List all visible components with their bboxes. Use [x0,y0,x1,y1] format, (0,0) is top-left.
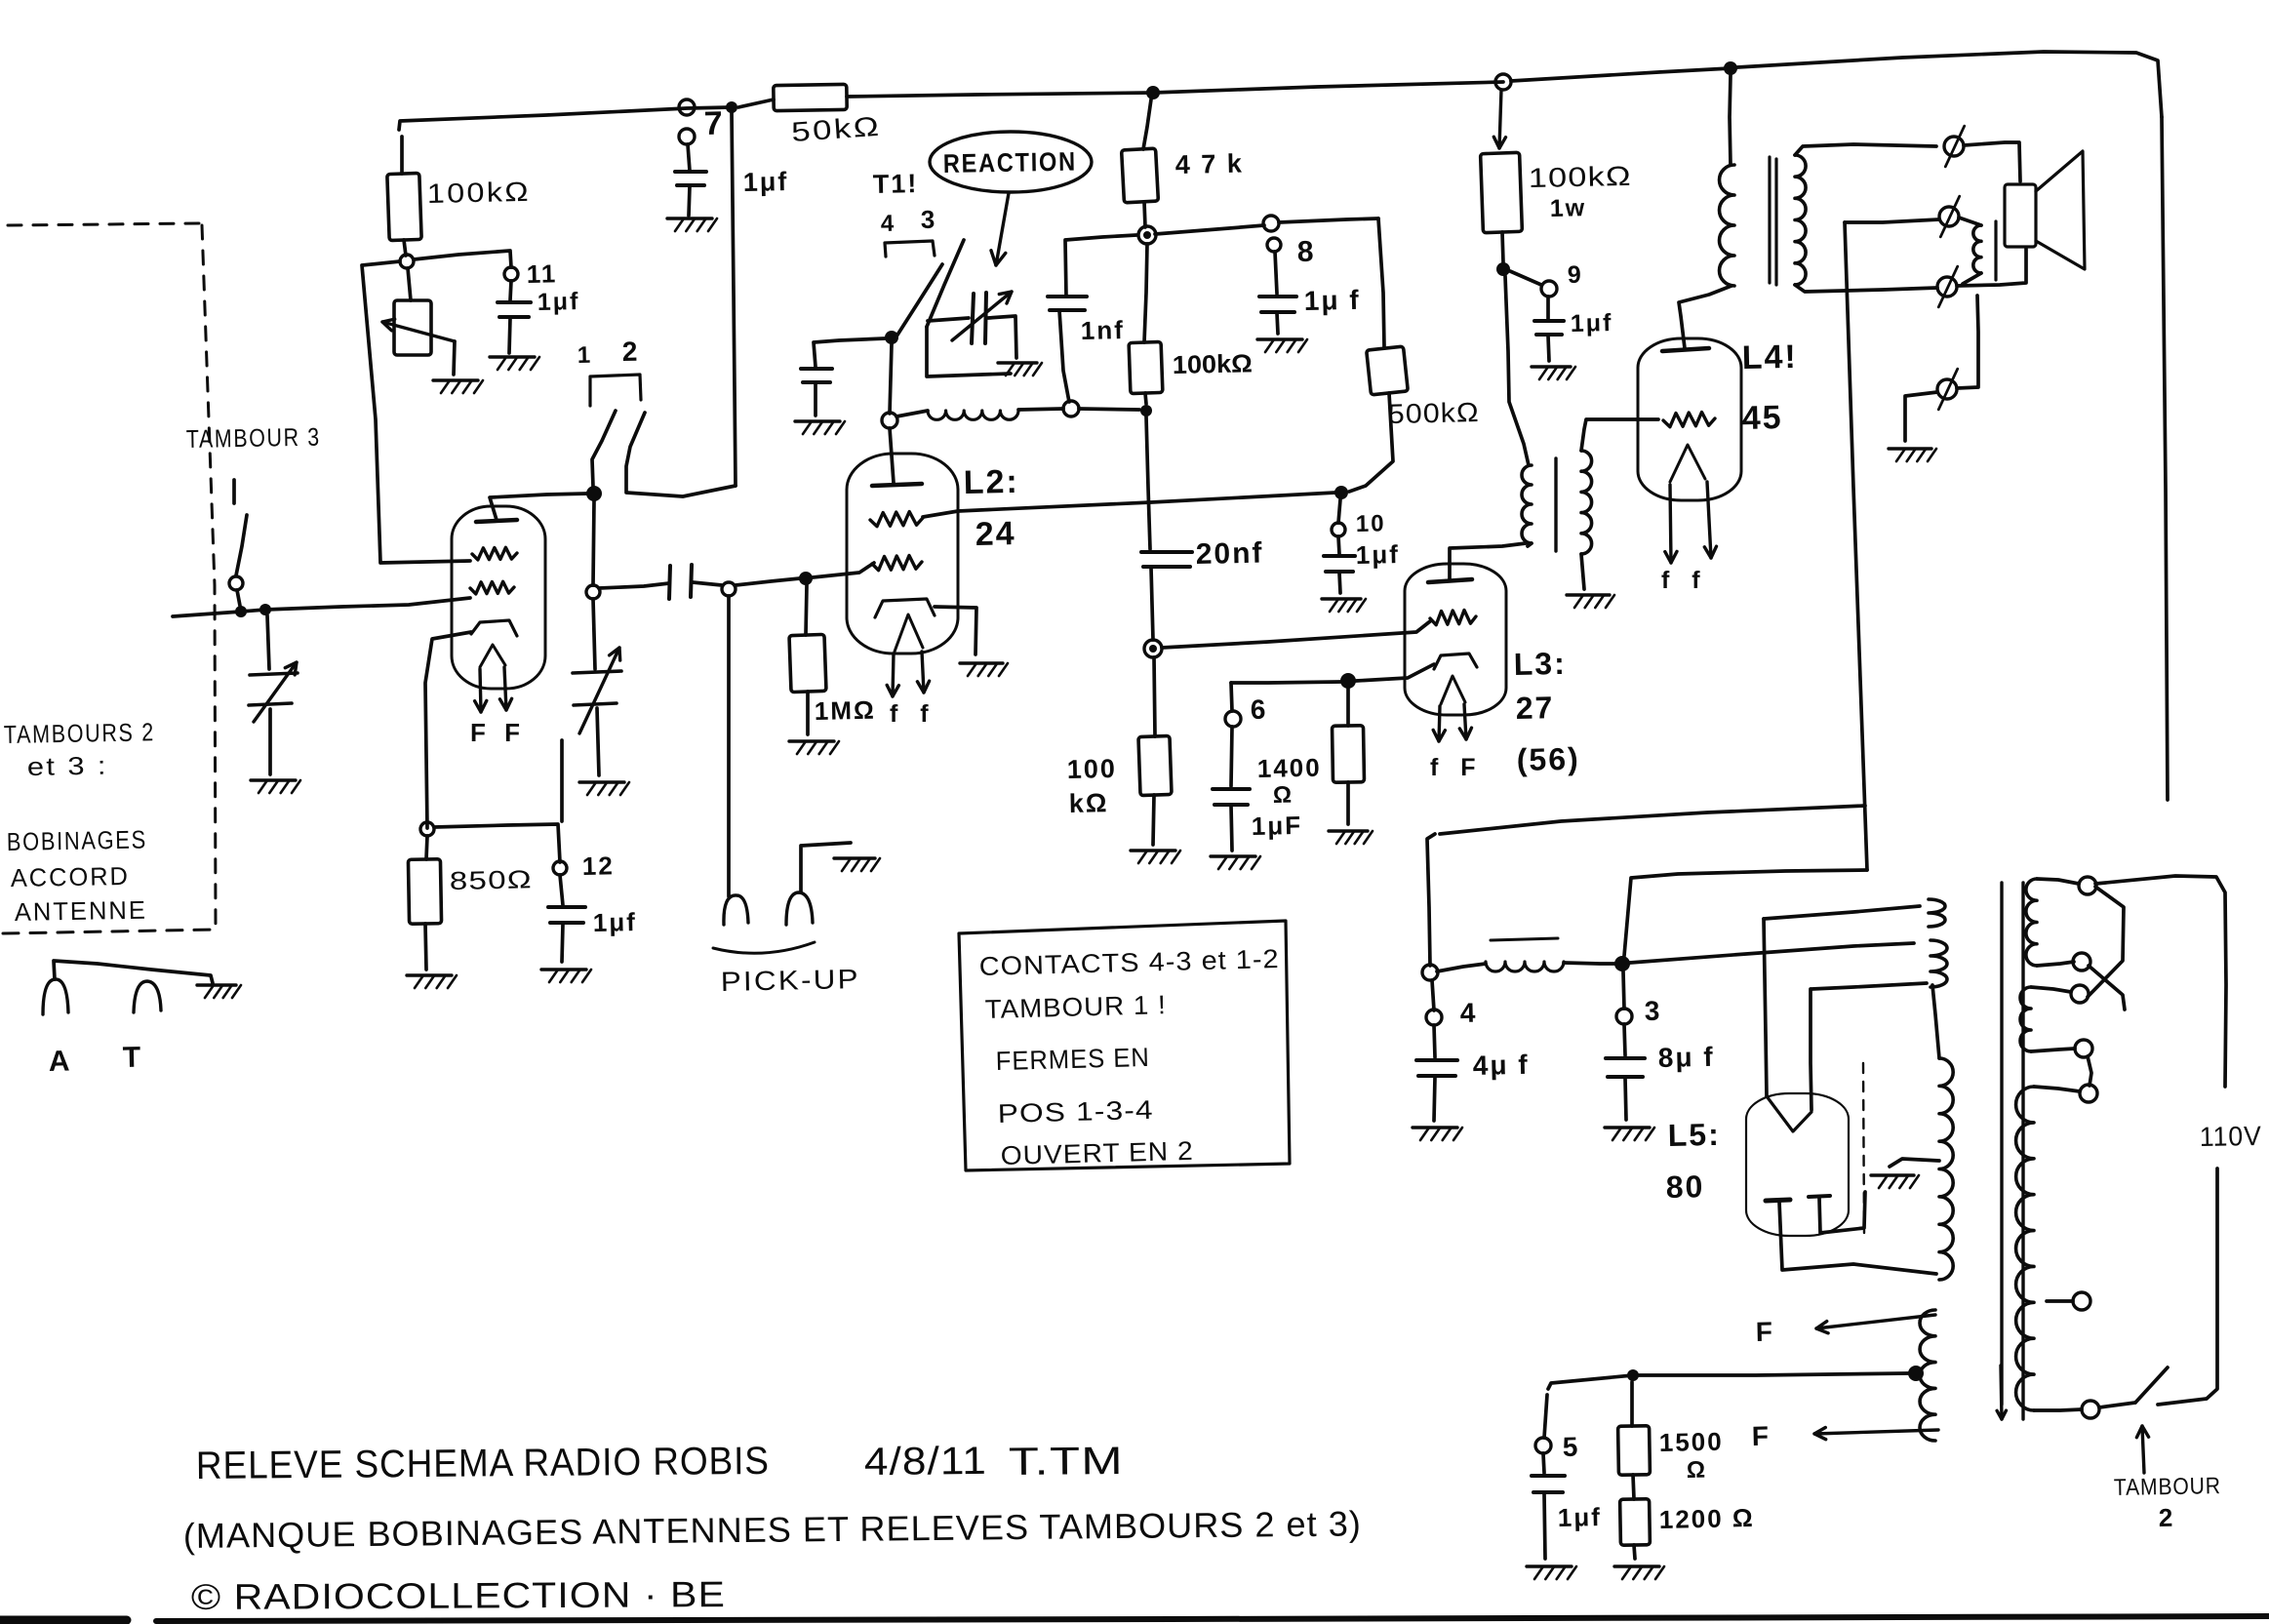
ground under node-8 cap [1257,339,1307,352]
ellipse around REACTION label [930,132,1092,192]
note text line 3 [995,1043,1150,1076]
wire terminal A to right corner [2095,876,2226,1087]
wire node 6 down to cap [1231,727,1232,786]
note text line 2 [984,990,1167,1024]
pickup arc [713,942,815,953]
tube L5 filament vee [1767,1096,1811,1131]
tube L2 filament vee [895,614,923,652]
label 1uF node 6 [1251,811,1302,841]
wire 100k to coil junction [1145,393,1146,404]
wire right edge vertical [2162,117,2168,800]
label TAMBOUR 3 [186,422,322,454]
wire F upper arrow [1816,1315,1935,1333]
wire L2 anode line to node 10 [923,493,1335,517]
label node 11 [526,258,557,289]
wire winding A top to terminal [2037,879,2079,884]
wire node12 cap to ground [562,924,563,962]
wire C bottom to mains switch [2099,1403,2135,1407]
tube L4 envelope [1638,338,1741,500]
speaker horn [2036,151,2085,269]
label TAMBOUR (2) [2114,1473,2221,1501]
wire junction to L2 grid [813,563,874,577]
label PICK-UP [720,964,860,997]
wire 1M to ground [806,692,810,734]
ground right of L2 [960,663,1008,676]
speaker terminal 3 circle [1937,277,1957,297]
svg-text:20nf: 20nf [1195,537,1263,571]
variable capacitor reaction right plate [985,293,986,343]
wire long drop to power section [1845,222,1867,870]
svg-text:8μ f: 8μ f [1657,1042,1714,1073]
label et 3 : [27,751,109,781]
wire coil to junction [1018,409,1063,410]
svg-text:ACCORD: ACCORD [11,861,131,892]
wire L5 right anode lead [1819,1192,1865,1233]
capacitor 1uF at node 5 [1532,1476,1565,1492]
tube L1 grid1 zigzag [472,547,517,560]
ground under node-5 cap [1527,1566,1576,1579]
terminal circle winding C mid-tap [2073,1292,2090,1310]
node 6 open circle [1225,711,1241,727]
ground under node-6 cap [1211,856,1260,869]
subtitle line [183,1503,1362,1556]
svg-text:11: 11 [526,258,557,289]
svg-text:50kΩ: 50kΩ [790,111,882,147]
wire T1 node left to cathode cap [814,338,885,367]
core arrow bottom [1997,1366,2006,1419]
svg-text:4: 4 [881,211,896,237]
svg-text:1μF: 1μF [1251,811,1302,841]
wire 100k1W down to junction [1502,232,1503,262]
svg-text:Ω: Ω [1687,1457,1708,1484]
wire terminal4 to ground drop [1905,392,1937,441]
junction dot above 1500 [1627,1369,1639,1381]
dashed line left of HV winding [1863,1063,1864,1233]
tube L1 plate bar [476,520,517,522]
slash through terminal 2 [1940,196,1959,237]
HV center tap ground lead [1890,1159,1939,1167]
wire junction down to circle [593,500,594,585]
ground under 4uF [1413,1128,1462,1140]
capacitor 1uF at node 6 [1213,789,1250,805]
ground under reaction cap [998,363,1042,376]
output transformer core lines [1770,157,1776,285]
wire 500k down to node 10 [1349,393,1393,492]
tube L2 grid1 zigzag [870,512,923,527]
svg-text:T: T [122,1042,142,1074]
node circle after coil [1063,401,1079,416]
tube L1 filament vee [480,645,505,667]
label f f under L2 [890,700,936,728]
wire bus to 47k [1143,99,1151,149]
wire secondary top to L4 grid [1581,419,1658,451]
tube L1 cathode bracket [471,620,517,636]
wire 47k to junction [1144,202,1145,227]
node 5 open circle [1535,1438,1551,1453]
tube L1 grid2 zigzag [470,581,514,594]
svg-text:4 7 k: 4 7 k [1174,149,1244,179]
junction dot bus top [1146,86,1160,99]
svg-text:1500: 1500 [1658,1427,1723,1457]
switch blade contact4 [895,264,942,339]
tube L2 envelope [847,454,958,654]
svg-text:110V: 110V [2200,1121,2263,1152]
svg-text:7: 7 [703,105,725,142]
svg-text:5: 5 [1562,1432,1579,1462]
wire reaction node into L2 top [890,428,894,483]
wire node8 to cap [1275,252,1277,294]
tube L4 filament vee [1670,445,1705,482]
junction dot at L1 plate switch [586,486,602,501]
svg-text:RELEVE SCHEMA RADIO ROBIS: RELEVE SCHEMA RADIO ROBIS [196,1440,770,1487]
wire node4 to cap [1434,1025,1435,1057]
ground under rheostat wiper [433,380,483,393]
title monogram [1009,1440,1124,1484]
label 1uF node 8 [1303,285,1360,316]
svg-text:10: 10 [1356,510,1386,537]
label F F under L1 [470,718,526,747]
variable capacitor antenna arrow [254,662,297,722]
wire circle to main line [237,590,240,606]
junction dot node 10 [1334,486,1348,499]
tube L4 filament arrows [1665,482,1717,563]
terminal circle winding A bottom [2073,953,2090,970]
variable capacitor reaction arrow [952,292,1012,340]
tube L4 plate bar [1662,348,1709,351]
capacitor 1uF at node 9 [1534,321,1564,335]
svg-text:TAMBOUR 3: TAMBOUR 3 [186,422,322,454]
wire 1500 to 1200 [1633,1475,1634,1499]
svg-text:2: 2 [2158,1503,2174,1532]
ground under 1400 resistor [1329,831,1373,844]
wire corner down to choke node [1427,834,1435,966]
label 20nF [1195,537,1263,571]
wire corner down to node 5 [1544,1395,1547,1438]
label ANTENNE [15,895,148,927]
mains winding C (110V primary) [2016,1087,2034,1410]
power transformer core right [2021,883,2024,1419]
svg-text:PICK-UP: PICK-UP [720,964,860,997]
wire C mid tap [2047,1299,2073,1303]
crossing wire B-top to A [2088,887,2124,997]
label node 7 [703,105,725,142]
label 100kohm 1W [1528,161,1632,193]
label node 3 [1644,996,1661,1026]
wire A to arc over T [54,961,213,983]
svg-text:1μf: 1μf [592,907,637,937]
wire 8uF to ground [1625,1078,1626,1120]
label contacts 1 2 [577,337,640,369]
svg-text:4: 4 [1459,998,1477,1028]
ground under speaker terminal 4 [1889,449,1936,461]
wire node to 100k-1W with arrow [1493,90,1505,148]
arrow TAMBOUR 2 [2136,1426,2148,1473]
wire 100k lower to ground [1153,795,1154,845]
label F lower [1751,1421,1771,1451]
svg-text:1μ f: 1μ f [1303,285,1360,316]
junction dot at top of switch riser [726,101,737,113]
label f f under L4 [1661,567,1708,594]
wire winding B bottom lead [2031,1049,2075,1051]
label node 8 [1296,236,1315,268]
svg-text:f F: f F [1430,754,1484,781]
svg-text:T.TM: T.TM [1009,1440,1124,1484]
wire OT secondary bottom to terminal 3 [1795,285,1937,292]
wire terminal1 to speaker corner [1964,142,2020,181]
label 110V [2200,1121,2263,1152]
wire winding B top lead [2031,987,2071,992]
svg-text:L5:: L5: [1667,1117,1721,1153]
wire pickup left prong drop [727,596,731,896]
coupling capacitor right plate [691,565,692,597]
switch 1-2 bracket [590,375,641,406]
wire F lower arrow [1814,1428,1938,1440]
svg-text:1: 1 [577,342,593,369]
ground under antenna tuning cap [251,780,300,793]
wire right filament vertical [1811,989,1811,1110]
svg-text:L2:: L2: [963,463,1019,501]
terminal circle winding A top [2079,877,2096,894]
label 45 [1741,399,1783,437]
wire node6 cap to ground [1231,806,1232,851]
ground under 8uF [1605,1128,1654,1140]
wire node9 to cap [1546,297,1550,319]
rectifier filament winding upper [1929,899,1945,927]
pickup left prong [724,895,748,925]
ground under node-12 capacitor [541,970,591,982]
ground under node-10 cap [1322,599,1366,612]
node 11 open circle [504,267,518,281]
wire junction to node 3 [1623,971,1624,1009]
wire node to left corner and down to L1 grid1 [362,261,470,563]
wire down to node 4 [1432,980,1434,1010]
wire junction to node 8 [1155,225,1264,234]
label 1uF at node 11 [537,288,580,316]
label 1200 ohm [1658,1503,1755,1534]
label 500kohm [1387,397,1480,429]
junction dot B+ top right [1724,61,1737,75]
wire junction right to rectifier winding [1630,943,1914,963]
label 1uF right of riser [742,167,788,197]
node circle on pickup line [586,585,600,599]
filament winding L4 heater [1920,1310,1935,1441]
variable capacitor antenna plate bottom [249,703,292,705]
label L3: [1513,646,1567,682]
tube L3 grid zigzag [1430,611,1476,625]
svg-text:1400: 1400 [1256,753,1321,783]
ground under 850 ohm [407,975,457,988]
wire HV top to rect winding [1932,985,1939,1058]
svg-text:Ω: Ω [1273,782,1294,809]
label L5: [1667,1117,1721,1153]
svg-text:A: A [48,1046,71,1078]
tube L3 filament vee [1441,676,1465,704]
resistor 100k (bus) body [1129,341,1163,393]
wire bus junction down to 20nF [1146,416,1150,549]
node circle reaction tap [882,413,897,428]
label REACTION [943,147,1078,178]
tube L3 filament arrows [1433,704,1471,741]
svg-text:6: 6 [1250,694,1267,725]
wire rect-winding upper lead [1764,906,1920,919]
wire node8 cap to ground [1277,313,1278,334]
rheostat body (potentiometer) [394,300,431,355]
switch blade contact1 [592,411,616,487]
svg-text:f f: f f [890,700,936,728]
svg-text:FERMES EN: FERMES EN [995,1043,1150,1076]
variable capacitor 2 arrow [579,648,620,733]
ground next to T [197,985,241,998]
label f F under L3 [1430,754,1484,781]
wire circle to coupling cap [599,583,669,588]
power transformer HV winding [1939,1058,1953,1280]
label 24 [975,515,1016,553]
ground under lower 100k [1131,851,1180,863]
terminal circle winding B top [2071,985,2089,1003]
slash through terminal 3 [1938,266,1957,307]
svg-text:et 3 :: et 3 : [27,751,109,781]
mains switch blade [2135,1367,2168,1403]
wire to 1M junction [736,578,800,585]
wire L3 cathode left to junction [1356,664,1434,681]
wire terminal2 to voice coil [1959,218,1981,225]
wire double junction to L3 grid [1162,621,1430,648]
label node 6 [1250,694,1267,725]
svg-text:80: 80 [1665,1168,1704,1205]
rectifier filament winding lower [1931,940,1947,987]
ground under 1200 [1614,1566,1664,1579]
interstage transformer secondary coil [1581,451,1592,554]
svg-text:9: 9 [1568,261,1583,289]
tube L2 grid2 zigzag [872,556,922,571]
label 2 (tambour) [2158,1503,2174,1532]
junction dot node 3 top [1614,956,1630,971]
wire winding A bottom lead [2037,962,2074,966]
svg-text:850Ω: 850Ω [449,864,533,895]
wire terminal3 to speaker rect [1957,249,2026,286]
svg-text:TAMBOURS 2: TAMBOURS 2 [4,717,155,749]
resistor 1M body [789,634,826,692]
junction circles mid-bus [1138,226,1156,244]
reaction coil (grid coil) [928,411,1018,419]
label A [48,1046,71,1078]
wire 850-node right to node 12 [434,824,560,862]
node 10 open circle [1332,523,1345,536]
label 80 [1665,1168,1704,1205]
label BOBINAGES [7,824,148,856]
wire L3 plate up to interstage primary [1450,543,1526,579]
wire L5 left anode lead [1779,1202,1936,1274]
wire B+ horizontal upper [1440,806,1865,834]
wire tuning cap to ground [268,709,272,774]
wire 4uF to ground [1434,1077,1435,1121]
filter choke overline [1491,938,1558,940]
resistor 100k 1W body [1481,152,1523,232]
node 9 open circle [1541,281,1557,297]
label 47k [1174,149,1244,179]
wire node10 dot to circle [1338,499,1340,523]
slash through terminal 4 [1938,369,1957,410]
variable capacitor reaction left plate [972,294,974,343]
svg-text:REACTION: REACTION [943,147,1078,178]
wire junction down to 1500 [1630,1382,1634,1426]
wire node10 cap to ground [1339,573,1340,593]
label kohm (lower) [1068,788,1108,818]
tube L5 anode bar right [1809,1196,1830,1197]
label L2: [963,463,1019,501]
label node 12 [581,851,615,881]
wire 20nF to double junction [1151,568,1153,640]
ground under node-11 capacitor [490,357,539,370]
title line [196,1440,770,1487]
interstage transformer primary coil [1522,465,1532,543]
resistor 50k body (horizontal) [774,84,847,110]
wire cathode junction down to 1400 resistor [1346,689,1350,726]
node open circle top bus x1541 [1495,74,1511,90]
wire double junction to 100k lower [1154,657,1155,736]
wire reaction node to coil [896,411,928,416]
svg-text:F F: F F [470,718,526,747]
wire choke left lead [1437,964,1486,971]
wire mains switch to 110V riser [2158,1168,2217,1405]
wire terminal4 up to terminal3 level [1957,296,1978,388]
note text line 4 [997,1095,1154,1129]
tube L4 grid zigzag [1663,413,1715,427]
output transformer primary coil [1719,165,1734,286]
node 8 circles [1263,216,1281,252]
copyright line [191,1574,726,1617]
svg-text:45: 45 [1741,399,1783,437]
svg-text:24: 24 [975,515,1016,553]
node 7 terminal circle [679,129,695,144]
wire 1M junction down [806,585,807,635]
wire 1400 to ground [1346,782,1350,824]
wire 100k bottom lead [404,240,406,256]
label node 4 [1459,998,1477,1028]
junction dot antenna line 1 [235,606,247,617]
tube L1 envelope [452,506,545,689]
svg-text:1μf: 1μf [1355,539,1400,570]
ground at HV center tap [1871,1175,1919,1188]
wire top bus rising right [1511,68,1731,81]
svg-text:2: 2 [621,337,639,367]
node 3 open circle [1616,1009,1632,1024]
label 1500 [1658,1427,1723,1457]
capacitor L2 cathode bypass [801,369,832,382]
switch blade tambour3 [236,515,247,575]
wire node3 to cap [1624,1024,1625,1055]
variable capacitor 2 plate bottom [574,703,617,705]
junction dot at 1M tap [799,572,813,585]
note text line 1 [978,944,1280,981]
junction dot coil-bus [1140,405,1152,416]
mains winding B [2020,987,2031,1051]
wire 1200 to ground [1634,1545,1635,1559]
label 1uF node 10 [1355,539,1400,570]
coupling capacitor left plate [669,566,670,599]
svg-text:1200 Ω: 1200 Ω [1658,1503,1755,1534]
svg-text:3: 3 [1644,996,1661,1026]
label L4! [1741,338,1798,376]
variable capacitor antenna plate top [250,673,298,675]
junction dot T1 node [885,331,898,344]
wire node8 to 500k corner [1279,218,1378,222]
capacitor 1nF plates [1048,297,1087,310]
junction dot filament center tap [1908,1366,1924,1381]
switch 4-3 bracket [885,241,935,257]
ground under L2 cathode cap [795,421,845,434]
wire L4 plate to OT primary [1679,286,1732,348]
